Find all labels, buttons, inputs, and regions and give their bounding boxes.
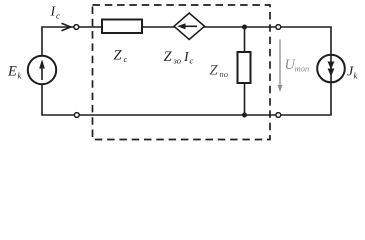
terminal node bottom-left bbox=[74, 113, 79, 118]
wire top: Ek top to Jk top bbox=[42, 27, 331, 56]
dependent source arrow bbox=[181, 25, 197, 27]
source J1 (Jk) circle bbox=[317, 55, 345, 83]
junction node bottom bbox=[242, 113, 247, 118]
junction node top bbox=[242, 25, 247, 30]
resistor Zc bbox=[102, 20, 142, 34]
svg-text:c: c bbox=[190, 56, 194, 66]
terminal node bottom-right bbox=[276, 113, 281, 118]
terminal node top-left bbox=[74, 25, 79, 30]
source E1 (Ek) circle bbox=[28, 56, 56, 84]
svg-text:Z: Z bbox=[114, 48, 123, 64]
voltage arrow Utop bbox=[279, 40, 281, 87]
svg-text:зо: зо bbox=[173, 56, 181, 66]
terminal node top-right bbox=[276, 25, 281, 30]
svg-text:топ: топ bbox=[295, 64, 310, 74]
svg-text:по: по bbox=[220, 69, 229, 79]
source Ek arrow bbox=[41, 62, 43, 80]
svg-text:Z: Z bbox=[164, 49, 173, 65]
svg-text:k: k bbox=[354, 71, 358, 81]
dependent source U1 (diamond) bbox=[174, 13, 205, 40]
wire bottom: Ek bottom to Jk bottom bbox=[42, 82, 331, 115]
svg-text:c: c bbox=[124, 54, 128, 64]
svg-text:k: k bbox=[18, 71, 22, 81]
svg-text:c: c bbox=[56, 11, 60, 21]
dashed two-port box bbox=[93, 5, 271, 140]
svg-text:Z: Z bbox=[210, 63, 219, 79]
svg-text:E: E bbox=[7, 64, 17, 80]
current arrow Ic on top wire bbox=[62, 23, 71, 31]
source Jk double arrow bbox=[330, 55, 332, 82]
resistor Zpo bbox=[238, 52, 251, 83]
wire branch Zpo bbox=[244, 27, 246, 115]
